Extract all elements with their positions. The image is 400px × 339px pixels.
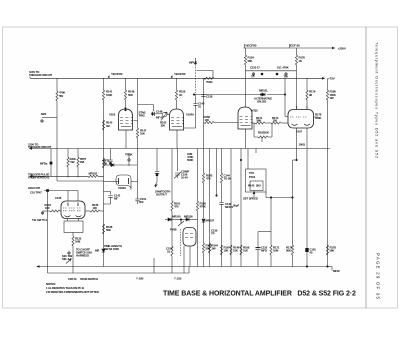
wire V102 left bbox=[104, 181, 119, 183]
svg-text:100K: 100K bbox=[106, 93, 113, 97]
resistor R179 bbox=[306, 78, 308, 90]
resistor R161 bbox=[171, 149, 173, 202]
svg-text:300: 300 bbox=[161, 123, 166, 127]
resistor R127 470K 5W bbox=[56, 78, 58, 91]
wire col x203.5 bbox=[203, 78, 205, 173]
wire: +255V top rail bbox=[244, 47, 335, 49]
resistor R132 bbox=[72, 236, 74, 246]
tube V102A bbox=[116, 175, 131, 182]
capacitor C149 bbox=[195, 95, 197, 104]
capacitor C138 bbox=[201, 95, 205, 97]
capacitor C148 bbox=[153, 105, 155, 112]
wire anode col R141 bbox=[103, 78, 105, 90]
svg-text:C10 TP47: C10 TP47 bbox=[30, 191, 42, 195]
margin divider line bbox=[365, 27, 367, 308]
resistor R177 bbox=[326, 245, 328, 255]
svg-text:S.E. 470K: S.E. 470K bbox=[277, 66, 290, 70]
resistor R176 bbox=[296, 48, 298, 55]
svg-text:½W: ½W bbox=[70, 160, 75, 164]
svg-text:¼ 100: ¼ 100 bbox=[174, 277, 182, 281]
node junction col bbox=[216, 149, 218, 196]
svg-text:100: 100 bbox=[273, 119, 278, 123]
wire V101 cathode down bbox=[72, 233, 74, 237]
wire col x103 lower bbox=[103, 149, 105, 267]
wire set speed line bbox=[266, 192, 293, 198]
svg-text:MFDa: MFDa bbox=[40, 162, 48, 166]
capacitor C141 electrolytic bbox=[104, 192, 111, 195]
resistor R144 bbox=[208, 243, 210, 253]
svg-text:STAB SWITCH: STAB SWITCH bbox=[80, 277, 98, 281]
svg-text:V104A: V104A bbox=[186, 112, 195, 116]
test point TB SW bbox=[41, 212, 44, 215]
wire V106 cathode bbox=[184, 246, 190, 273]
resistor R165 bbox=[254, 123, 258, 137]
diode MR101 bbox=[262, 93, 265, 96]
svg-text:V102A: V102A bbox=[118, 186, 127, 190]
svg-text:V105: V105 bbox=[252, 108, 259, 112]
resistor R171 10M bbox=[270, 198, 272, 246]
svg-text:ON S52: ON S52 bbox=[257, 100, 267, 104]
resistors R171 R173 row bbox=[252, 122, 255, 124]
resistor R146 51K bbox=[230, 245, 232, 255]
wire V104 top bbox=[176, 100, 178, 109]
tube V101 (bistable) bbox=[61, 201, 85, 219]
svg-text:TIME BASE & HORIZONTAL AMPLIFI: TIME BASE & HORIZONTAL AMPLIFIER D52 & S… bbox=[163, 291, 356, 298]
svg-text:C155 17: C155 17 bbox=[250, 66, 260, 70]
wire: bottom second rail bbox=[48, 267, 190, 274]
screen box under V101 bbox=[64, 221, 83, 233]
svg-text:470: 470 bbox=[174, 205, 179, 209]
svg-text:100Ω: 100Ω bbox=[299, 142, 306, 146]
wire V104 cathode bbox=[176, 130, 178, 149]
resistor R134 100 bbox=[44, 210, 50, 212]
svg-text:PAGE 29 OF 35: PAGE 29 OF 35 bbox=[375, 253, 380, 300]
diodes MR105 MR106 bbox=[165, 219, 168, 221]
svg-text:2W: 2W bbox=[212, 246, 216, 250]
wire V107 cathode right col bbox=[306, 128, 308, 267]
svg-text:T.B. SW TC1: T.B. SW TC1 bbox=[32, 218, 47, 222]
wire MR101 line bbox=[194, 94, 285, 96]
wire to V101 grids bbox=[44, 190, 78, 192]
svg-text:C148: C148 bbox=[156, 109, 163, 113]
svg-text:50pF: 50pF bbox=[233, 203, 239, 207]
svg-text:½ECF80: ½ECF80 bbox=[245, 44, 257, 48]
svg-text:½ECF80: ½ECF80 bbox=[111, 72, 123, 76]
resistor on rail 700 bbox=[203, 77, 205, 79]
svg-text:500K: 500K bbox=[187, 158, 194, 162]
svg-text:10M: 10M bbox=[273, 249, 279, 253]
pot R162 bbox=[162, 112, 167, 117]
resistor R166 bbox=[197, 149, 199, 202]
svg-text:¼ 180: ¼ 180 bbox=[136, 277, 144, 281]
svg-text:100K: 100K bbox=[315, 116, 322, 120]
wire V105 anode top bbox=[245, 106, 247, 108]
resistor R143 50K bbox=[202, 243, 204, 253]
resistor R130 bbox=[77, 149, 79, 158]
wire trigger line bbox=[30, 175, 104, 177]
resistor R145 1M bbox=[102, 120, 104, 130]
svg-text:MR106: MR106 bbox=[184, 215, 193, 219]
wire: bottom earth rail bbox=[37, 267, 332, 271]
capacitor col x221.5 bbox=[221, 149, 223, 174]
svg-text:TP: TP bbox=[251, 75, 255, 79]
svg-text:MR102: MR102 bbox=[89, 171, 98, 175]
wire bridge bbox=[258, 231, 271, 233]
resistor R180 bbox=[327, 78, 329, 90]
diode MR107 bbox=[202, 219, 205, 222]
svg-text:1W: 1W bbox=[330, 96, 334, 100]
svg-text:MR105: MR105 bbox=[172, 215, 181, 219]
resistor R129 240K bbox=[67, 149, 69, 158]
svg-text:ECF 80: ECF 80 bbox=[290, 44, 300, 48]
svg-text:MFW: MFW bbox=[333, 269, 340, 273]
svg-text:V107: V107 bbox=[296, 130, 303, 134]
svg-text:V103: V103 bbox=[109, 112, 116, 116]
svg-text:500: 500 bbox=[139, 200, 144, 204]
svg-text:M20: M20 bbox=[41, 112, 47, 116]
sawtooth output arrow bbox=[155, 176, 157, 186]
svg-text:MF: MF bbox=[114, 197, 118, 201]
wire V105 cathode bbox=[245, 129, 247, 149]
svg-text:+75V: +75V bbox=[328, 77, 336, 81]
resistor R155 bbox=[171, 246, 173, 256]
wire h line y165 bbox=[104, 164, 138, 166]
svg-text:10M: 10M bbox=[75, 240, 81, 244]
svg-text:470: 470 bbox=[206, 177, 211, 181]
wire input dashed screen bbox=[195, 64, 197, 93]
pot wiper arrow bbox=[253, 193, 255, 197]
wire col x209.5 bbox=[209, 149, 211, 267]
svg-text:HARNESS: HARNESS bbox=[76, 253, 89, 257]
wire: HT rail A bbox=[30, 77, 325, 79]
svg-text:OUTPUT: OUTPUT bbox=[156, 192, 167, 196]
svg-text:2 R DENOTES COMPONENTS N: 2 R DENOTES COMPONENTS NOT FITTED bbox=[46, 290, 99, 294]
wire V103 anode/cathode bbox=[125, 130, 127, 149]
resistor R168 51K bbox=[240, 245, 242, 255]
resistor R136 100 bbox=[85, 210, 90, 212]
wire grid x285 bbox=[285, 78, 288, 116]
svg-text:HOLD Off: HOLD Off bbox=[28, 186, 40, 190]
svg-text:C136: C136 bbox=[55, 196, 62, 200]
resistor R156 bbox=[176, 78, 178, 90]
svg-text:470K: 470K bbox=[200, 205, 207, 209]
svg-text:5W: 5W bbox=[59, 94, 63, 98]
svg-text:MR101: MR101 bbox=[259, 88, 268, 92]
wire screen drop / coupling col bbox=[134, 78, 154, 128]
svg-text:PY88: PY88 bbox=[170, 227, 177, 231]
svg-text:100: 100 bbox=[93, 206, 98, 210]
resistor R147 bbox=[136, 128, 138, 138]
resistor R178 bbox=[314, 116, 319, 118]
wire: hold-off vertical bbox=[47, 192, 49, 267]
svg-text:Telequipment Oscilloscopes Typ: Telequipment Oscilloscopes Types D52 and… bbox=[375, 42, 379, 158]
resistor R158 bbox=[203, 122, 205, 124]
svg-text:100: 100 bbox=[205, 118, 210, 122]
resistor R138 bbox=[103, 213, 105, 215]
resistor R148 56K bbox=[125, 78, 127, 90]
wire col x231 bbox=[230, 149, 232, 267]
wire col x241 bbox=[240, 149, 242, 267]
pot arrow to V106 bbox=[178, 220, 184, 227]
wire col57 lower bbox=[56, 149, 58, 182]
diode MR103 bbox=[111, 163, 114, 166]
capacitor C152 bbox=[156, 149, 158, 172]
wire V107 cathode left bbox=[293, 128, 297, 245]
svg-text:TRIG: TRIG bbox=[139, 114, 146, 118]
svg-text:10-40: 10-40 bbox=[181, 175, 188, 179]
svg-text:C138: C138 bbox=[206, 94, 213, 98]
svg-text:½ECF80: ½ECF80 bbox=[174, 72, 186, 76]
wire: rail B bbox=[30, 148, 331, 150]
resistor R175 bbox=[291, 245, 293, 255]
svg-text:P104: P104 bbox=[249, 175, 256, 179]
svg-text:1S8: 1S8 bbox=[80, 160, 85, 164]
diode MR104 bbox=[102, 249, 105, 252]
svg-text:100: 100 bbox=[45, 206, 50, 210]
tube V107 bbox=[288, 110, 314, 129]
wire input attenuator L bbox=[197, 71, 214, 79]
resistor R167 bbox=[220, 245, 222, 255]
wire trigger line 2 bbox=[57, 180, 104, 182]
test point TP bbox=[68, 252, 71, 255]
wire rail C stubs bbox=[256, 137, 262, 153]
svg-text:2K5: 2K5 bbox=[256, 183, 261, 187]
svg-text:TRIGGER CIRCUIT: TRIGGER CIRCUIT bbox=[28, 145, 51, 149]
svg-text:SW S2 100K: SW S2 100K bbox=[104, 247, 120, 251]
svg-text:TW: TW bbox=[284, 75, 289, 79]
svg-text:R145: R145 bbox=[248, 183, 255, 187]
capacitor C151 bbox=[135, 199, 139, 201]
trimmer C156 COMP bbox=[177, 149, 179, 172]
capacitor MFD on col51 bbox=[50, 149, 52, 162]
svg-text:MR107: MR107 bbox=[206, 218, 215, 222]
svg-text:TP: TP bbox=[211, 232, 215, 236]
resistor R131 bbox=[88, 175, 98, 177]
set speed box P104 bbox=[247, 149, 249, 170]
svg-text:SET SPEED: SET SPEED bbox=[243, 196, 258, 200]
wire col x110 MFD cap bbox=[110, 149, 112, 161]
svg-text:TRIGGER CIRCUIT: TRIGGER CIRCUIT bbox=[29, 73, 52, 77]
svg-text:MFD: MFD bbox=[261, 249, 267, 253]
resistor R139 bbox=[102, 158, 104, 168]
wire tp row bbox=[246, 70, 297, 72]
svg-text:+255V: +255V bbox=[338, 46, 347, 50]
svg-text:700Ω: 700Ω bbox=[206, 80, 213, 84]
capacitor C155 col bbox=[153, 258, 155, 273]
wire V102 right col bbox=[131, 149, 138, 200]
svg-text:C28 40: C28 40 bbox=[68, 277, 77, 281]
wire col x258 electrolytic C152 bbox=[257, 232, 259, 247]
resistor R154 bbox=[245, 48, 247, 55]
